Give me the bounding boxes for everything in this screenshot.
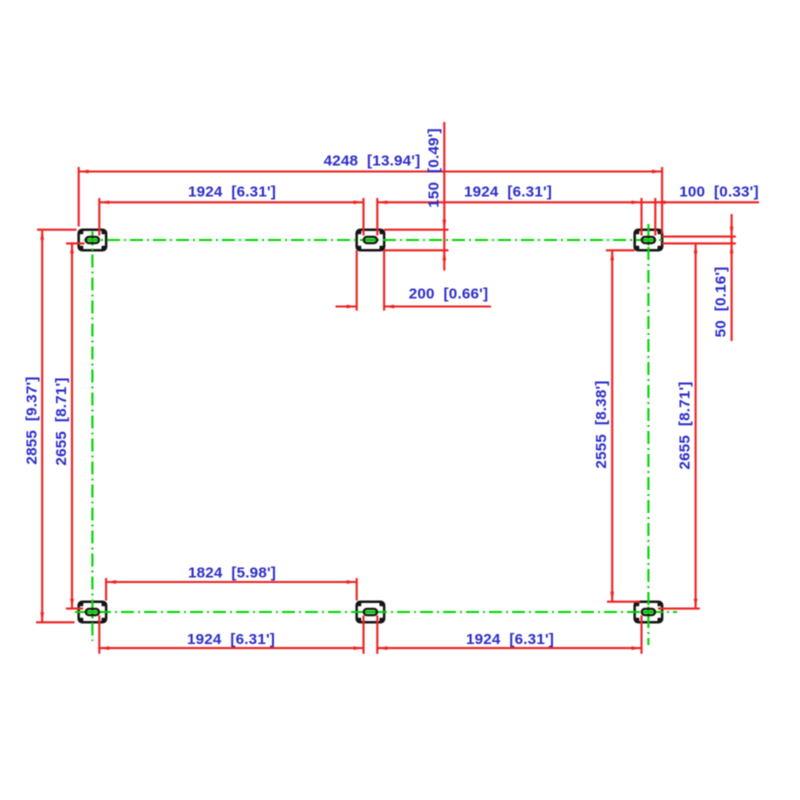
svg-text:1924 [6.31']: 1924 [6.31'] — [188, 183, 276, 200]
svg-text:1924 [6.31']: 1924 [6.31'] — [464, 183, 552, 200]
svg-text:4248 [13.94']: 4248 [13.94'] — [324, 153, 421, 170]
svg-text:1824 [5.98']: 1824 [5.98'] — [188, 564, 276, 581]
svg-text:50 [0.16']: 50 [0.16'] — [713, 267, 730, 338]
svg-text:200 [0.66']: 200 [0.66'] — [409, 285, 488, 302]
svg-text:1924 [6.31']: 1924 [6.31'] — [466, 631, 554, 648]
svg-text:2655 [8.71']: 2655 [8.71'] — [53, 377, 70, 465]
svg-text:1924 [6.31']: 1924 [6.31'] — [187, 631, 275, 648]
svg-text:2555 [8.38']: 2555 [8.38'] — [593, 380, 610, 468]
svg-text:2655 [8.71']: 2655 [8.71'] — [677, 381, 694, 469]
svg-text:2855 [9.37']: 2855 [9.37'] — [23, 376, 40, 464]
svg-text:150 [0.49']: 150 [0.49'] — [425, 128, 442, 207]
svg-text:100 [0.33']: 100 [0.33'] — [679, 183, 758, 200]
